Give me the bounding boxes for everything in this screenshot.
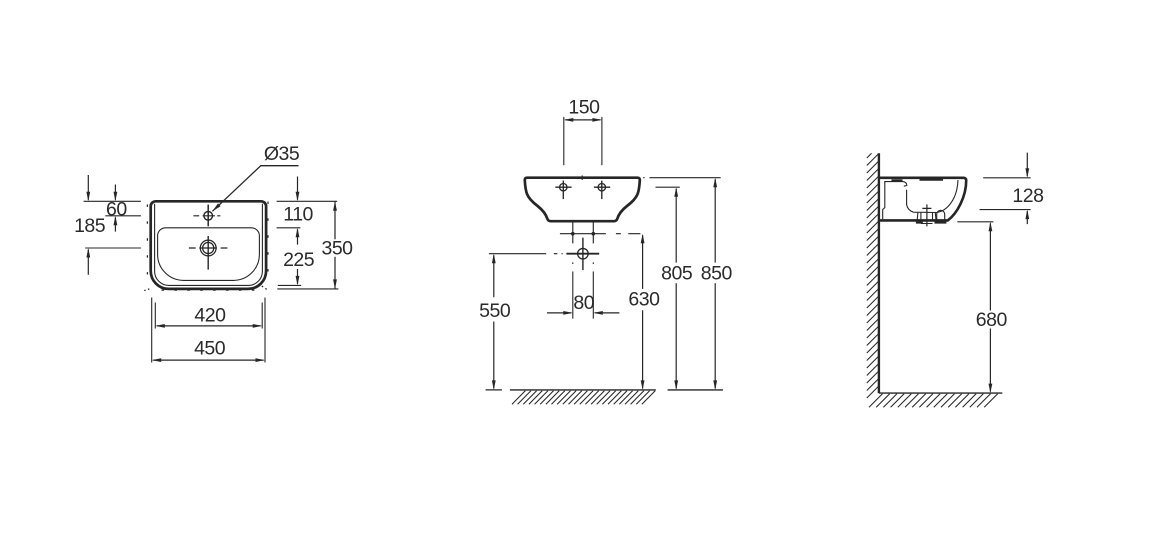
extension line: 80 right (dash + solid) [592, 262, 594, 318]
dimension 110 [283, 177, 313, 245]
extension line: bottom right inner (420) [261, 303, 263, 329]
wall hatching [867, 146, 879, 398]
extension line: bottom right outer (450) [264, 298, 266, 363]
washbasin outer rim outline [151, 201, 266, 289]
svg-text:850: 850 [701, 262, 733, 284]
faucet hole [204, 212, 213, 221]
svg-text:450: 450 [194, 338, 226, 360]
svg-text:550: 550 [479, 300, 511, 322]
extension line: outer bottom, right [277, 288, 338, 290]
svg-text:185: 185 [74, 215, 106, 237]
svg-text:110: 110 [283, 204, 313, 226]
dimension 150 [564, 97, 602, 122]
svg-text:128: 128 [1012, 185, 1043, 207]
faucet hole on rim (edge-on) [891, 179, 902, 181]
overflow slot on rim (edge-on) [920, 179, 944, 181]
extension line: mounting hole level right (805) [656, 186, 680, 188]
dimension 60 [106, 185, 127, 232]
drain flange section [917, 213, 936, 221]
siphon crosshair vertical [582, 238, 584, 271]
tap deck section [883, 182, 907, 220]
svg-text:420: 420 [194, 304, 226, 326]
floor line (middle view) [510, 389, 656, 391]
fixing bolt left [571, 232, 575, 236]
wall line [878, 153, 880, 393]
floor level line under 805/850 [668, 389, 723, 391]
floor hatching (right view) [869, 394, 998, 408]
dimension 80 [547, 292, 619, 315]
extension line: 150 left [563, 117, 565, 165]
drain horizontal centerline [189, 247, 228, 249]
dimension 420 [155, 304, 262, 328]
top edge center tick [581, 175, 583, 180]
drain neck right line [592, 222, 594, 243]
floor line (right view) [879, 392, 1002, 394]
washbasin inner rim line [155, 204, 263, 286]
svg-text:630: 630 [628, 289, 660, 311]
extension line: inner bottom, right [278, 284, 301, 286]
drain neck left line [572, 222, 574, 243]
bolt axis centerline [560, 233, 641, 235]
siphon drain circle [578, 248, 589, 259]
extension line: bottom left outer (450) [151, 298, 153, 363]
svg-text:680: 680 [976, 309, 1008, 331]
svg-text:350: 350 [321, 238, 353, 260]
faucet hole vertical centerline [207, 205, 209, 227]
extension line: basin ledge, right [277, 227, 301, 229]
fixing bolt right [592, 232, 596, 236]
extension line: drain axis, left [85, 247, 141, 249]
svg-text:805: 805 [661, 262, 693, 284]
dimension 630 [628, 234, 660, 390]
dimension 680 [976, 222, 1008, 393]
drain boss bottom (thick) [916, 221, 947, 224]
svg-text:150: 150 [568, 97, 600, 119]
drain hole outer circle [200, 240, 216, 256]
leader line Ø35 [212, 166, 298, 212]
drain hole inner circle [203, 242, 214, 253]
extension line: 80 left (dash + solid) [572, 262, 574, 318]
dimension 185 [74, 175, 106, 275]
dimension 550 [479, 254, 511, 390]
trap arch [937, 210, 945, 221]
svg-text:60: 60 [106, 199, 127, 221]
faucet hole horizontal centerline [193, 215, 220, 217]
550 floor tick [486, 389, 502, 391]
extension line: top edge, right [277, 200, 338, 202]
hidden rear edge (dashed, bottom) [162, 289, 256, 291]
extension line: bottom left inner (420) [154, 303, 156, 329]
leader arrowhead [212, 203, 220, 211]
hidden rear bottom corner (dashed, right) [262, 286, 267, 289]
siphon crosshair horizontal [566, 253, 599, 255]
inner basin outline [158, 228, 260, 281]
drain axis crosshair [922, 204, 931, 226]
hidden rear bottom corner (dashed, left) [144, 289, 149, 290]
svg-text:80: 80 [573, 292, 594, 314]
extension line: faucet axis, left [105, 215, 141, 217]
dimension 128 [1012, 153, 1043, 225]
svg-text:Ø35: Ø35 [264, 143, 300, 165]
extension line: apron level (128 bottom) [980, 209, 1031, 211]
extension line: top edge, left [84, 200, 141, 202]
floor hatching (middle view) [512, 391, 655, 404]
washbasin body outline (front elevation) [525, 178, 640, 222]
extension line: rim level right (850) [643, 177, 721, 179]
mounting hole right [598, 184, 605, 191]
drain pipe section [921, 213, 933, 224]
mounting hole left [560, 184, 567, 191]
washbasin side profile outline [880, 178, 966, 221]
siphon axis centerline to the left [489, 253, 563, 255]
extension line: basin underside (680 top) [957, 221, 993, 223]
dimension 225 [283, 249, 315, 286]
inner bowl section line [907, 180, 958, 213]
dimension 350 [321, 201, 353, 289]
dimension 850 [701, 178, 733, 390]
extension line: rim level (128 top) [983, 177, 1030, 179]
hidden rear edge (dashed, left side) [146, 205, 148, 279]
extension line: 150 right [601, 117, 603, 165]
dimension 450 [152, 338, 265, 363]
drain vertical centerline [207, 236, 209, 270]
svg-text:225: 225 [283, 249, 315, 271]
hidden rear edge (dashed, right side) [267, 202, 269, 282]
dimension 805 [661, 187, 693, 390]
